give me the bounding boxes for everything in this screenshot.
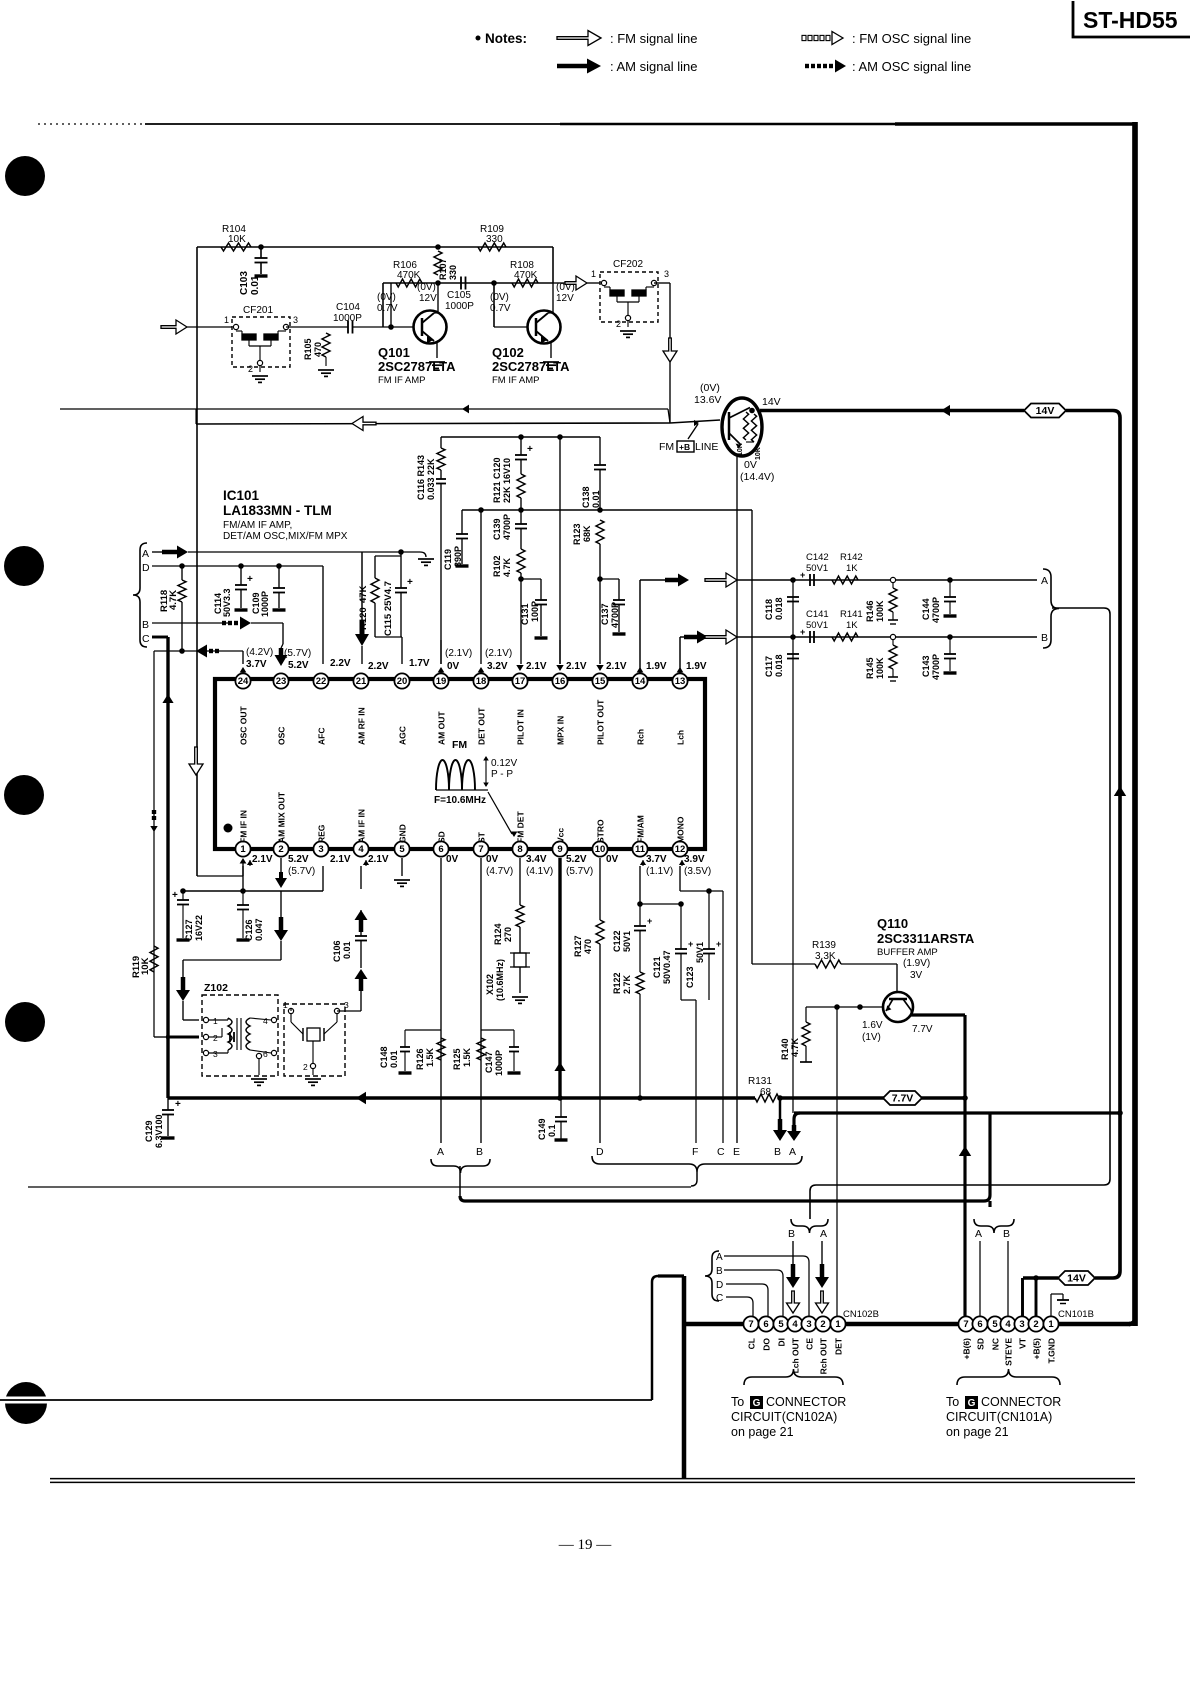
svg-text:LA1833MN - TLM: LA1833MN - TLM [223, 503, 332, 518]
svg-text:R121 C120: R121 C120 [492, 457, 502, 503]
svg-text:C: C [142, 633, 150, 645]
svg-text:1000P: 1000P [260, 591, 270, 617]
svg-text:C103: C103 [239, 271, 250, 295]
svg-text:C: C [717, 1146, 725, 1158]
svg-text:100P: 100P [530, 601, 540, 622]
svg-text:C148: C148 [379, 1046, 389, 1068]
svg-text:R146: R146 [865, 600, 875, 622]
svg-text:47K: 47K [358, 585, 369, 603]
svg-text:10K: 10K [228, 234, 246, 245]
svg-text:50V1: 50V1 [695, 942, 705, 963]
svg-text:CF201: CF201 [243, 305, 273, 316]
svg-text:14: 14 [635, 676, 646, 687]
svg-text:2.1V: 2.1V [252, 854, 273, 865]
svg-text:2.1V: 2.1V [566, 661, 587, 672]
svg-text:13.6V: 13.6V [694, 394, 721, 406]
svg-text:A: A [437, 1146, 444, 1158]
svg-text:CN101B: CN101B [1058, 1309, 1094, 1320]
svg-text:6: 6 [438, 844, 443, 855]
svg-text:A: A [716, 1252, 723, 1263]
svg-text:1: 1 [835, 1319, 841, 1330]
svg-text:18: 18 [476, 676, 487, 687]
svg-text:0.1: 0.1 [547, 1124, 557, 1137]
svg-text:(4.1V): (4.1V) [526, 866, 553, 877]
svg-text:2.7K: 2.7K [622, 974, 632, 994]
svg-text:AGC: AGC [398, 726, 408, 745]
svg-text:(2.1V): (2.1V) [445, 648, 472, 659]
svg-text:2.1V: 2.1V [526, 661, 547, 672]
svg-text:DET OUT: DET OUT [477, 707, 487, 745]
svg-text:B: B [1003, 1228, 1010, 1240]
svg-text:470K: 470K [397, 270, 421, 281]
svg-text:C143: C143 [921, 655, 931, 677]
svg-text:3: 3 [344, 1000, 349, 1010]
svg-text:470K: 470K [514, 270, 538, 281]
svg-text:13: 13 [675, 676, 686, 687]
svg-text:R126: R126 [415, 1048, 425, 1070]
svg-text:R140: R140 [780, 1038, 790, 1060]
svg-text:STEYE: STEYE [1004, 1338, 1014, 1366]
svg-text:FM IF IN: FM IF IN [239, 810, 249, 843]
svg-text:330: 330 [448, 265, 458, 280]
svg-text:2: 2 [1033, 1319, 1038, 1330]
svg-text:: AM signal line: : AM signal line [610, 59, 697, 74]
svg-text:2: 2 [248, 364, 253, 374]
svg-text:on page 21: on page 21 [946, 1425, 1009, 1439]
svg-text:: AM OSC signal line: : AM OSC signal line [852, 59, 971, 74]
svg-text:2.1V: 2.1V [368, 854, 389, 865]
svg-text:4700P: 4700P [610, 602, 620, 628]
svg-text:4700P: 4700P [931, 654, 941, 680]
svg-text:C122: C122 [612, 930, 622, 952]
svg-text:FM IF AMP: FM IF AMP [492, 375, 540, 386]
svg-text:2SC3311ARSTA: 2SC3311ARSTA [877, 931, 975, 946]
svg-text:4.7K: 4.7K [790, 1037, 800, 1057]
svg-text:(1V): (1V) [862, 1032, 881, 1043]
svg-text:R105: R105 [303, 338, 313, 360]
svg-text:FM/AM: FM/AM [636, 815, 646, 843]
svg-text:6: 6 [763, 1319, 768, 1330]
svg-text:50V1: 50V1 [806, 620, 828, 631]
svg-text:C137: C137 [600, 603, 610, 625]
svg-text:7: 7 [748, 1319, 753, 1330]
svg-text:F=10.6MHz: F=10.6MHz [434, 795, 486, 806]
svg-text:R120: R120 [358, 607, 369, 630]
svg-text:DET/AM OSC,MIX/FM MPX: DET/AM OSC,MIX/FM MPX [223, 531, 348, 542]
svg-text:330: 330 [486, 234, 503, 245]
svg-text:7.7V: 7.7V [912, 1024, 933, 1035]
svg-text:3.9V: 3.9V [684, 854, 705, 865]
svg-text:0V: 0V [446, 854, 459, 865]
svg-text:(5.7V): (5.7V) [284, 648, 311, 659]
svg-text:CONNECTOR: CONNECTOR [981, 1395, 1061, 1409]
svg-text:3V: 3V [910, 970, 923, 981]
svg-text:+B: +B [679, 442, 690, 452]
svg-text:4700P: 4700P [502, 514, 512, 540]
svg-text:1.9V: 1.9V [646, 661, 667, 672]
svg-text:3: 3 [1019, 1319, 1024, 1330]
svg-text:(1.9V): (1.9V) [903, 958, 930, 969]
svg-text:Q101: Q101 [378, 345, 410, 360]
svg-text:Q110: Q110 [877, 916, 908, 931]
svg-text:B: B [774, 1146, 781, 1158]
svg-text:50V3.3: 50V3.3 [222, 588, 232, 617]
svg-text:C118: C118 [764, 599, 774, 620]
svg-text:C138: C138 [581, 486, 591, 508]
svg-text:B: B [1041, 632, 1048, 644]
svg-text:1: 1 [240, 844, 246, 855]
svg-text:50V1: 50V1 [806, 563, 828, 574]
svg-text:+: + [247, 574, 253, 585]
svg-text:23: 23 [276, 676, 287, 687]
svg-text:BUFFER AMP: BUFFER AMP [877, 947, 938, 958]
svg-text:0.033 22K: 0.033 22K [426, 458, 436, 500]
svg-text:9: 9 [557, 844, 562, 855]
svg-text:(1.1V): (1.1V) [646, 866, 673, 877]
svg-text:2: 2 [213, 1033, 218, 1043]
svg-text:C139: C139 [492, 518, 502, 540]
svg-text:R124: R124 [493, 923, 503, 945]
svg-text:4: 4 [358, 844, 364, 855]
svg-text:4: 4 [1005, 1319, 1011, 1330]
svg-text:R145: R145 [865, 657, 875, 679]
svg-text:3.2V: 3.2V [487, 661, 508, 672]
svg-text:ST: ST [477, 831, 487, 843]
svg-text:50V1: 50V1 [622, 931, 632, 952]
svg-text:MPX IN: MPX IN [556, 716, 566, 745]
svg-text:OSC OUT: OSC OUT [239, 705, 249, 745]
svg-text:(3.5V): (3.5V) [684, 866, 711, 877]
svg-text:0V: 0V [606, 854, 619, 865]
svg-text:C104: C104 [336, 302, 360, 313]
svg-text:R102: R102 [492, 555, 502, 577]
svg-text:1.5K: 1.5K [425, 1047, 435, 1067]
svg-text:B: B [788, 1228, 795, 1240]
svg-text:22K 16V10: 22K 16V10 [502, 458, 512, 503]
svg-text:19: 19 [436, 676, 447, 687]
svg-text:VT: VT [1018, 1337, 1028, 1349]
svg-text:CIRCUIT(CN102A): CIRCUIT(CN102A) [731, 1410, 837, 1424]
svg-text:(5.7V): (5.7V) [288, 866, 315, 877]
svg-text:Notes:: Notes: [485, 31, 527, 46]
svg-text:(0V): (0V) [417, 282, 436, 293]
svg-text:R107: R107 [438, 258, 448, 280]
svg-text:To: To [731, 1395, 744, 1409]
svg-text:A: A [820, 1228, 827, 1240]
svg-text:To: To [946, 1395, 959, 1409]
svg-text:+: + [527, 444, 533, 455]
svg-text:B: B [476, 1146, 483, 1158]
svg-text:R141: R141 [840, 609, 863, 620]
svg-text:10: 10 [595, 844, 606, 855]
svg-text:1: 1 [283, 1000, 288, 1010]
svg-text:1K: 1K [846, 620, 858, 631]
svg-text:Rch OUT: Rch OUT [819, 1337, 829, 1374]
svg-text:SD: SD [437, 831, 447, 843]
svg-text:T.GND: T.GND [1047, 1338, 1057, 1364]
svg-text:AM RF IN: AM RF IN [357, 707, 367, 745]
svg-text:G: G [968, 1398, 976, 1409]
svg-text:4: 4 [263, 1016, 268, 1026]
svg-text:3: 3 [293, 315, 298, 325]
svg-text:17: 17 [515, 676, 526, 687]
svg-text:5.2V: 5.2V [288, 854, 309, 865]
svg-text:1000P: 1000P [445, 301, 474, 312]
svg-text:F: F [692, 1146, 698, 1158]
svg-text:4.7K: 4.7K [502, 557, 512, 577]
svg-text:10K: 10K [737, 443, 744, 456]
svg-text:21: 21 [356, 676, 367, 687]
svg-text:A: A [1041, 575, 1048, 587]
svg-text:3.7V: 3.7V [246, 659, 267, 670]
svg-text:P - P: P - P [491, 769, 513, 780]
svg-text:2.1V: 2.1V [606, 661, 627, 672]
svg-text:3.4V: 3.4V [526, 854, 547, 865]
svg-text:Q102: Q102 [492, 345, 524, 360]
svg-text:2: 2 [303, 1062, 308, 1072]
svg-text:AM MIX OUT: AM MIX OUT [277, 791, 287, 843]
svg-text:Lch: Lch [676, 730, 686, 745]
svg-text:4.7K: 4.7K [168, 590, 179, 610]
svg-text:C141: C141 [806, 609, 829, 620]
svg-text:470: 470 [583, 939, 593, 954]
svg-text:: FM signal line: : FM signal line [610, 31, 697, 46]
svg-text:+: + [172, 890, 178, 901]
svg-text:FM: FM [452, 739, 467, 751]
svg-text:PILOT IN: PILOT IN [516, 709, 526, 745]
svg-text:0.047: 0.047 [254, 918, 264, 941]
svg-text:1: 1 [213, 1016, 218, 1026]
svg-text:C121: C121 [652, 956, 662, 978]
svg-text:C144: C144 [921, 598, 931, 620]
svg-text:0.01: 0.01 [342, 941, 352, 959]
svg-text:D: D [716, 1280, 723, 1291]
svg-text:AFC: AFC [317, 728, 327, 745]
svg-text:14V: 14V [762, 396, 781, 408]
svg-text:270: 270 [503, 927, 513, 942]
svg-text:(10.6MHz): (10.6MHz) [495, 959, 505, 1001]
svg-text:24: 24 [238, 676, 249, 687]
svg-text:SD: SD [976, 1338, 986, 1350]
svg-text:MONO: MONO [676, 816, 686, 843]
svg-text:50V0.47: 50V0.47 [662, 950, 672, 984]
svg-text:2: 2 [616, 319, 621, 329]
svg-text:(0V): (0V) [700, 382, 720, 394]
svg-text:7: 7 [963, 1319, 968, 1330]
svg-text:C149: C149 [537, 1118, 547, 1140]
svg-text:C127: C127 [184, 919, 194, 941]
svg-text:AM IF IN: AM IF IN [357, 809, 367, 843]
svg-text:2SC2787LTA: 2SC2787LTA [492, 359, 570, 374]
svg-text:+: + [688, 939, 693, 949]
svg-text:(4.2V): (4.2V) [246, 647, 273, 658]
svg-text:C: C [716, 1293, 723, 1304]
svg-text:B: B [142, 619, 149, 631]
svg-text:R123: R123 [572, 523, 582, 545]
svg-text:C123: C123 [685, 966, 695, 988]
svg-text:5.2V: 5.2V [566, 854, 587, 865]
svg-text:A: A [975, 1228, 982, 1240]
svg-text:1000P: 1000P [333, 313, 362, 324]
svg-text:C142: C142 [806, 552, 829, 563]
svg-text:+: + [175, 1099, 181, 1110]
svg-text:(0V): (0V) [377, 292, 396, 303]
svg-text:0.018: 0.018 [774, 597, 784, 620]
svg-text:B: B [716, 1266, 723, 1277]
svg-text:68K: 68K [582, 525, 592, 542]
svg-text:CF202: CF202 [613, 259, 643, 270]
svg-text:LINE: LINE [695, 441, 718, 453]
svg-text:2SC2787LTA: 2SC2787LTA [378, 359, 456, 374]
svg-text:C106: C106 [332, 940, 342, 962]
svg-text:FM: FM [659, 441, 674, 453]
svg-text:16V22: 16V22 [194, 915, 204, 941]
svg-text:100K: 100K [875, 657, 885, 679]
svg-text:5: 5 [992, 1319, 998, 1330]
svg-text:+: + [800, 627, 805, 637]
svg-text:DET: DET [834, 1337, 844, 1355]
svg-text:FM DET: FM DET [516, 811, 526, 843]
svg-text:20: 20 [397, 676, 408, 687]
svg-text:G: G [753, 1398, 761, 1409]
svg-text:+: + [407, 577, 413, 588]
svg-text:CIRCUIT(CN101A): CIRCUIT(CN101A) [946, 1410, 1052, 1424]
svg-text:AM OUT: AM OUT [437, 711, 447, 745]
svg-text:R125: R125 [452, 1048, 462, 1070]
svg-text:— 19 —: — 19 — [558, 1537, 613, 1553]
svg-text:2: 2 [820, 1319, 825, 1330]
svg-text:7: 7 [478, 844, 483, 855]
svg-text:1: 1 [1048, 1319, 1054, 1330]
svg-text:R139: R139 [812, 940, 836, 951]
svg-text:CE: CE [805, 1338, 815, 1350]
svg-text:3: 3 [318, 844, 323, 855]
svg-text:(2.1V): (2.1V) [485, 648, 512, 659]
svg-text:A: A [789, 1146, 796, 1158]
svg-text:C117: C117 [764, 656, 774, 677]
svg-text:Rch: Rch [636, 729, 646, 745]
svg-text:0V: 0V [486, 854, 499, 865]
svg-text:4700P: 4700P [931, 597, 941, 623]
svg-text:C115 25V4.7: C115 25V4.7 [383, 581, 394, 636]
svg-text:C126: C126 [244, 919, 254, 941]
svg-text:+: + [647, 916, 652, 926]
svg-text:1: 1 [591, 269, 596, 279]
svg-text:R131: R131 [748, 1076, 772, 1087]
svg-text:+B(5): +B(5) [1032, 1338, 1042, 1360]
svg-text:(14.4V): (14.4V) [740, 471, 774, 483]
svg-text:1.5K: 1.5K [462, 1047, 472, 1067]
svg-text:0.7V: 0.7V [490, 303, 511, 314]
svg-text:FM/AM IF AMP,: FM/AM IF AMP, [223, 520, 292, 531]
svg-text:1.6V: 1.6V [862, 1020, 883, 1031]
svg-text:REG: REG [317, 824, 327, 843]
svg-text:5: 5 [399, 844, 405, 855]
svg-text:6: 6 [263, 1049, 268, 1059]
svg-text:C119: C119 [443, 549, 453, 570]
svg-text:D: D [596, 1146, 604, 1158]
svg-text:0.01: 0.01 [591, 490, 601, 508]
svg-text:C105: C105 [447, 290, 471, 301]
svg-text:2.2V: 2.2V [330, 658, 351, 669]
svg-text:0V: 0V [744, 459, 757, 471]
svg-text:1: 1 [224, 315, 229, 325]
svg-text:E: E [733, 1146, 740, 1158]
svg-text:DO: DO [762, 1338, 772, 1351]
svg-text:C129: C129 [144, 1120, 154, 1142]
svg-text:3: 3 [213, 1049, 218, 1059]
svg-text:0V: 0V [447, 661, 460, 672]
svg-text:+B(6): +B(6) [962, 1338, 972, 1360]
svg-text:CL: CL [747, 1338, 757, 1349]
svg-text:10K: 10K [140, 957, 151, 975]
svg-text:A: A [142, 548, 149, 560]
svg-text:14V: 14V [1067, 1273, 1086, 1285]
svg-text:ST-HD55: ST-HD55 [1083, 7, 1178, 33]
svg-text:CONNECTOR: CONNECTOR [766, 1395, 846, 1409]
svg-text:OSC: OSC [277, 727, 287, 745]
svg-text:+: + [800, 570, 805, 580]
svg-text:3.7V: 3.7V [646, 854, 667, 865]
svg-text:STRO: STRO [596, 819, 606, 843]
svg-text:R122: R122 [612, 972, 622, 994]
svg-text:0.7V: 0.7V [377, 303, 398, 314]
svg-text:DI: DI [777, 1338, 787, 1347]
svg-text:11: 11 [635, 844, 646, 855]
svg-text:D: D [142, 562, 150, 574]
svg-text:IC101: IC101 [223, 488, 260, 503]
svg-text:C147: C147 [484, 1051, 494, 1073]
svg-text:5: 5 [778, 1319, 784, 1330]
svg-text:3: 3 [664, 269, 669, 279]
svg-text:0.01: 0.01 [389, 1050, 399, 1068]
svg-text:R142: R142 [840, 552, 863, 563]
svg-text:100K: 100K [875, 600, 885, 622]
svg-text:12V: 12V [556, 293, 574, 304]
svg-text:68: 68 [760, 1087, 772, 1098]
svg-text:(0V): (0V) [490, 292, 509, 303]
svg-text:4: 4 [792, 1319, 798, 1330]
svg-text:+: + [716, 939, 721, 949]
svg-text:1K: 1K [846, 563, 858, 574]
svg-text:390P: 390P [453, 546, 463, 567]
svg-text:0.12V: 0.12V [491, 758, 517, 769]
svg-text:(5.7V): (5.7V) [566, 866, 593, 877]
svg-text:470: 470 [313, 342, 323, 357]
svg-text:3.3K: 3.3K [815, 951, 836, 962]
svg-text:8: 8 [517, 844, 522, 855]
svg-text:Lch OUT: Lch OUT [791, 1337, 801, 1373]
svg-text:R127: R127 [573, 935, 583, 957]
svg-text:C131: C131 [520, 603, 530, 625]
svg-text:2.2V: 2.2V [368, 661, 389, 672]
svg-text:5.2V: 5.2V [288, 660, 309, 671]
svg-text:NC: NC [991, 1338, 1001, 1350]
svg-text:X102: X102 [485, 974, 495, 995]
svg-text:15: 15 [595, 676, 606, 687]
svg-text:0.018: 0.018 [774, 654, 784, 677]
svg-text:2.1V: 2.1V [330, 854, 351, 865]
svg-text:6.3V100: 6.3V100 [154, 1114, 164, 1148]
svg-text:22: 22 [316, 676, 327, 687]
svg-text:on page 21: on page 21 [731, 1425, 794, 1439]
svg-text:1.9V: 1.9V [686, 661, 707, 672]
svg-text:C116 R143: C116 R143 [416, 455, 426, 500]
svg-text:16: 16 [555, 676, 566, 687]
svg-text:0.01: 0.01 [250, 275, 261, 295]
svg-text:1.7V: 1.7V [409, 658, 430, 669]
svg-text:1000P: 1000P [494, 1050, 504, 1076]
